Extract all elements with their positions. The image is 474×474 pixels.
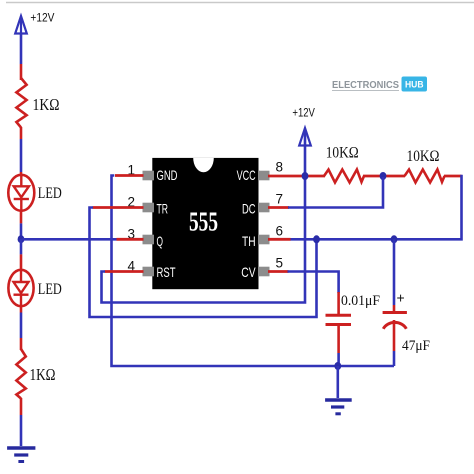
- svg-text:HUB: HUB: [405, 80, 424, 91]
- U1 pin 5 pad CV: [241, 256, 283, 281]
- node R3/R4 junction dot: [380, 172, 387, 180]
- wire: pin6 TH stub: [268, 238, 291, 241]
- wire: pin7 DC to R3/R4 junction: [268, 177, 383, 208]
- wire: D2 to R2: [20, 306, 23, 350]
- node TH/C2 junction dot: [391, 235, 398, 243]
- wire: pin5 CV to C1: [268, 272, 339, 315]
- capacitor C1 0.01μF: [326, 293, 381, 325]
- U1 pin 1 pad GND: [128, 163, 178, 184]
- ground (left): [7, 448, 35, 462]
- wire: R3 to R4: [363, 175, 405, 178]
- wire: pin2 TR loop to TH node: [90, 208, 317, 318]
- node TH/TR junction dot: [313, 235, 320, 243]
- resistor R2 1KΩ: [16, 349, 55, 399]
- node A (LED junction dot): [18, 235, 25, 243]
- U1 pin 3 pad Q: [128, 227, 164, 250]
- wire: C1 to ground node: [337, 325, 340, 367]
- svg-text:ELECTRONICS: ELECTRONICS: [332, 80, 399, 91]
- wire: R4 right end down to TH line: [290, 176, 462, 239]
- supply +12V (left): [15, 11, 54, 34]
- wire: C2 to bottom rail: [393, 320, 396, 366]
- wire: ground node down: [336, 366, 339, 398]
- resistor R1 1KΩ: [16, 78, 59, 128]
- U1 pin 6 pad TH: [242, 224, 283, 250]
- wire: R1 to LED D1: [20, 127, 23, 176]
- wire: R2 to ground: [20, 398, 23, 446]
- ground (right): [325, 400, 352, 414]
- node ground junction dot: [334, 362, 341, 370]
- supply +12V (right): [292, 106, 315, 177]
- wire: node A to pin3 Q: [23, 238, 144, 241]
- resistor R3 10KΩ: [324, 145, 364, 183]
- U1 pin 8 pad VCC: [237, 160, 283, 184]
- wire: left supply to R1: [20, 34, 23, 81]
- node VCC junction dot: [302, 172, 309, 180]
- wire: pin8 VCC to R3: [268, 175, 325, 178]
- LED D2: [8, 270, 61, 306]
- U1 pin 2 pad TR: [128, 195, 169, 217]
- wire: pin1 GND down to bottom rail: [112, 176, 395, 367]
- IC U1 555 body: [152, 158, 258, 289]
- LED D1: [8, 175, 62, 211]
- wire: D1 to node A: [20, 211, 23, 239]
- U1 pin 7 pad DC: [242, 192, 283, 217]
- wire: pin4 RST loop to VCC node: [102, 177, 306, 303]
- U1 pin 4 pad RST: [128, 259, 176, 281]
- resistor R4 10KΩ: [405, 148, 445, 183]
- wire: node A to LED D2: [20, 239, 23, 270]
- wire: TH node down to C2: [393, 239, 396, 312]
- capacitor C2 47μF polarized: [383, 290, 430, 355]
